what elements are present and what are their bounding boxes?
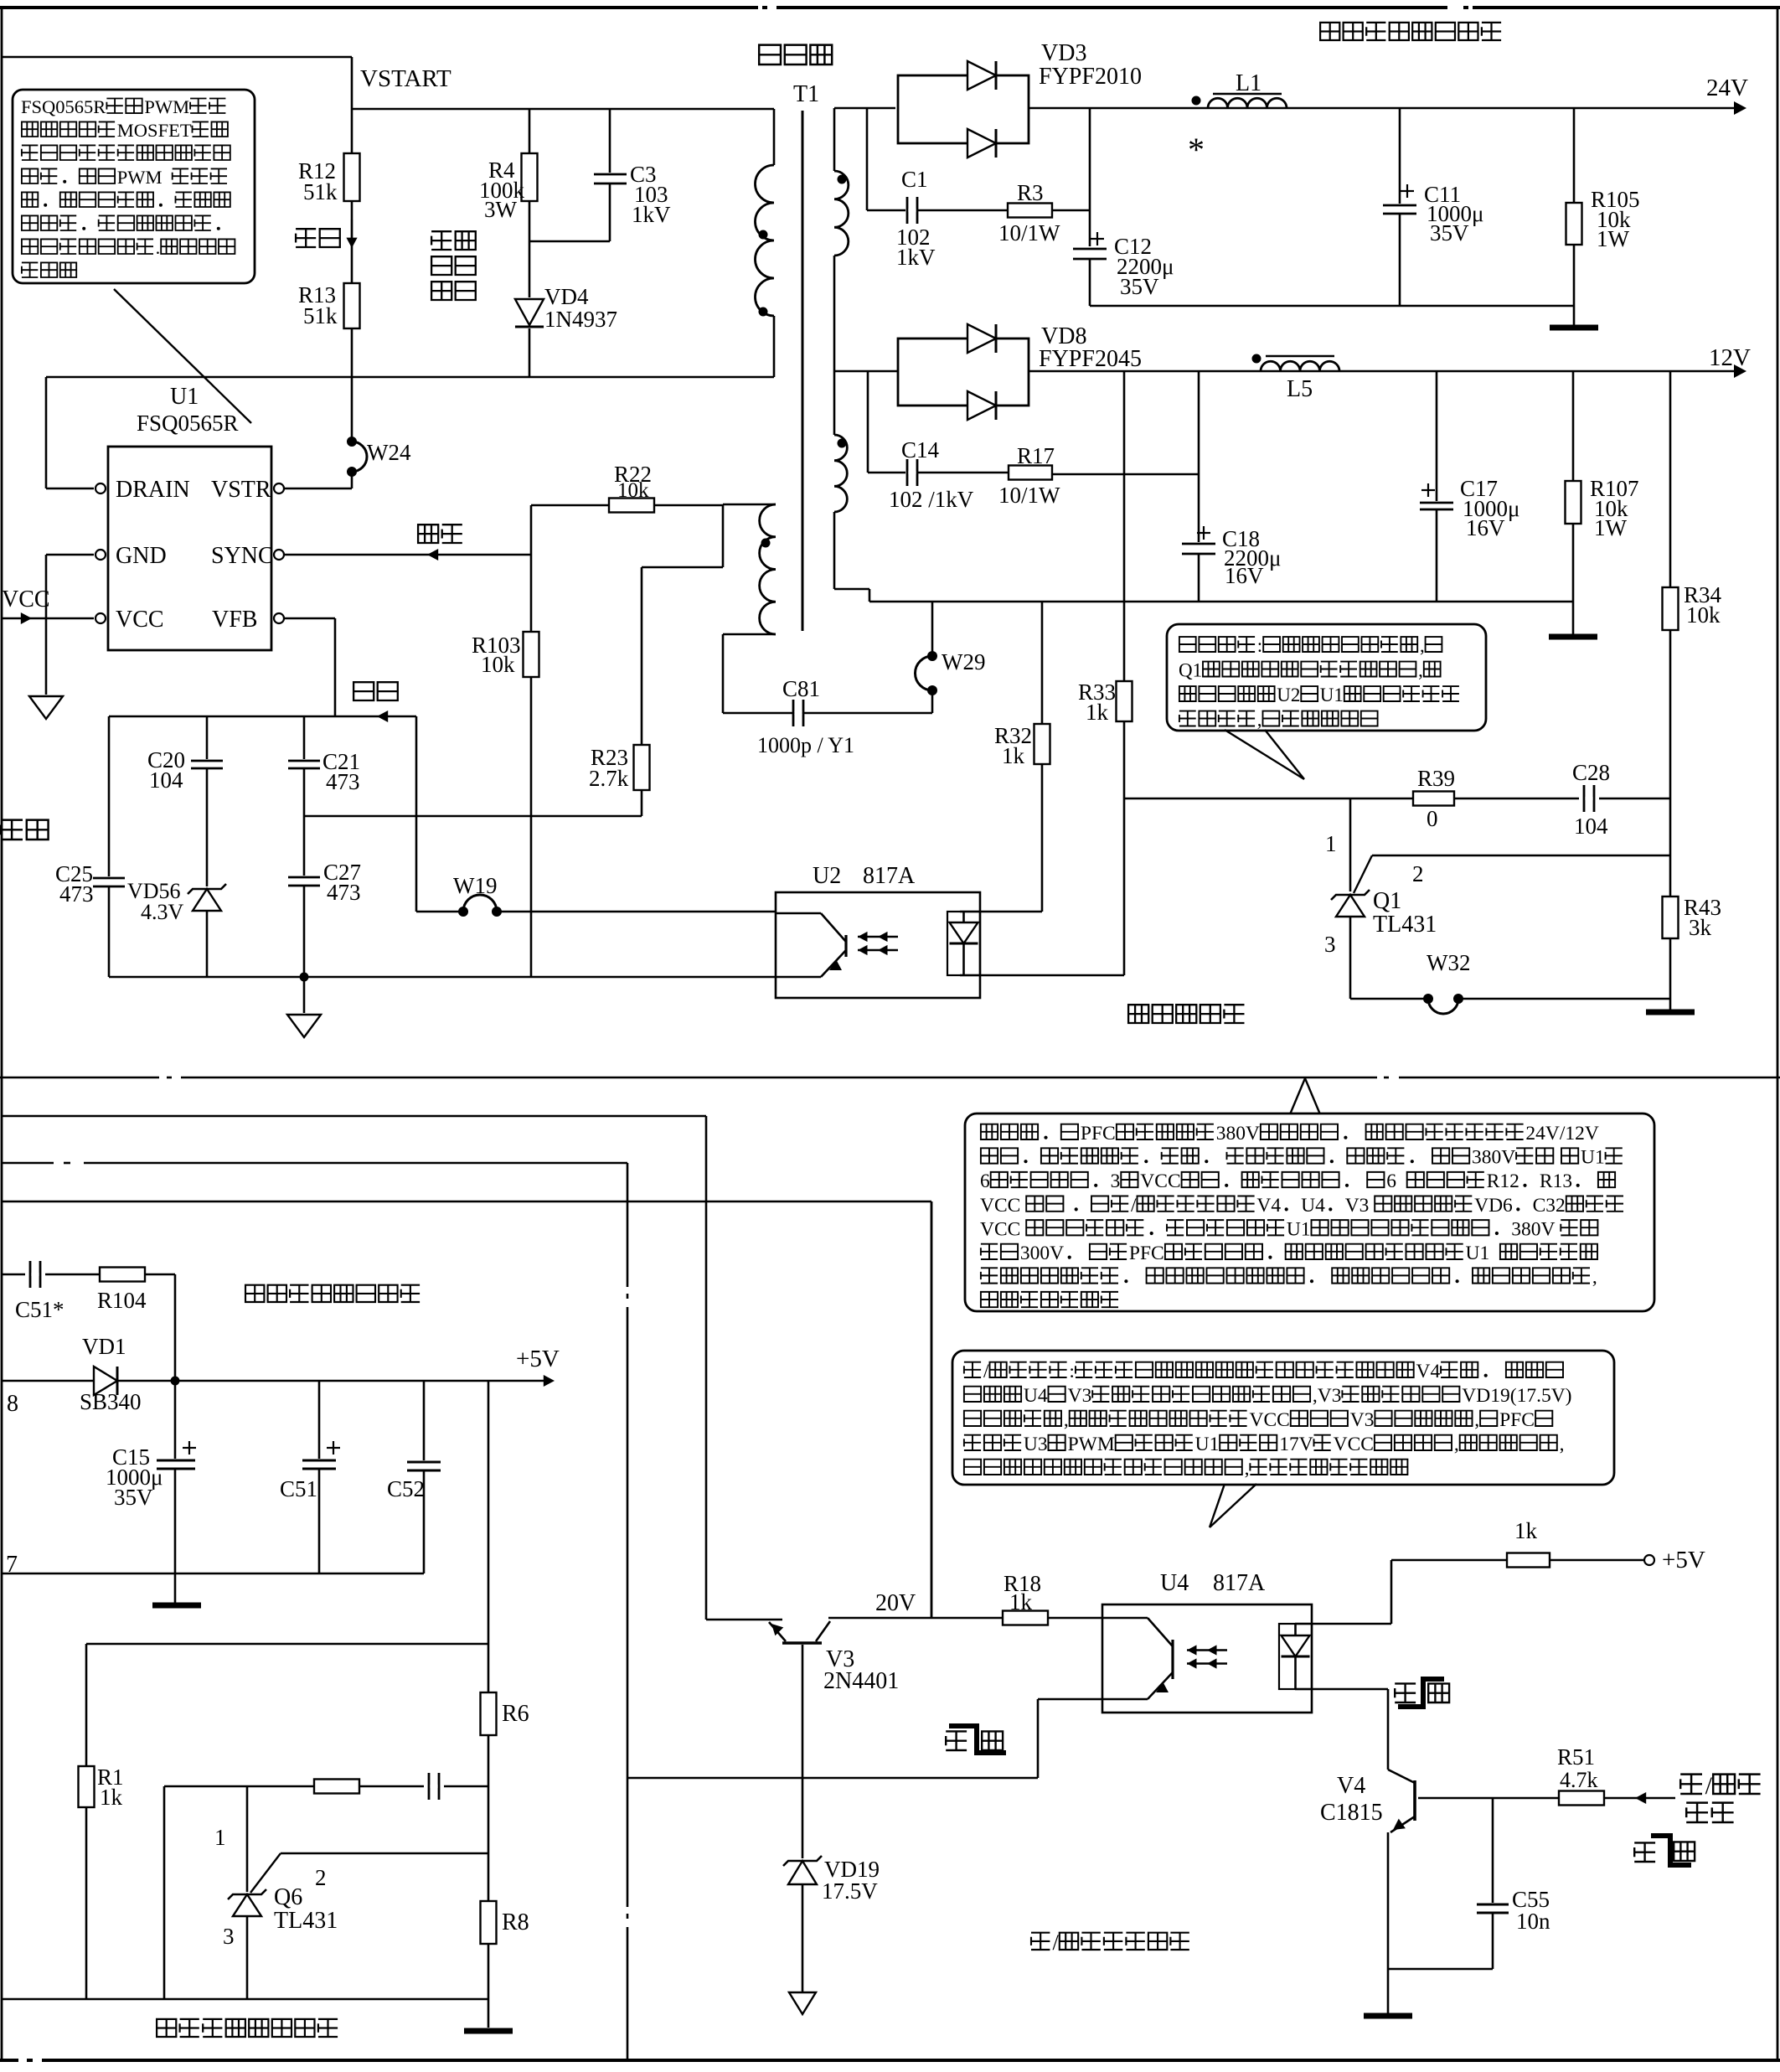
- svg-text:W24: W24: [367, 440, 411, 465]
- svg-text:VFB: VFB: [212, 607, 257, 633]
- svg-text:R39: R39: [1417, 766, 1455, 791]
- svg-text:35V: 35V: [1430, 220, 1469, 245]
- svg-text:.: .: [156, 237, 161, 258]
- svg-text:300V: 300V: [1020, 1243, 1064, 1264]
- svg-text:10/1W: 10/1W: [998, 483, 1060, 508]
- svg-text:10n: 10n: [1516, 1909, 1550, 1934]
- svg-text:8: 8: [7, 1391, 18, 1417]
- svg-text:PWM: PWM: [144, 96, 189, 117]
- svg-text:Q1: Q1: [1373, 888, 1401, 914]
- svg-text:1k: 1k: [1002, 743, 1025, 768]
- svg-text:104: 104: [149, 767, 183, 793]
- svg-text:3: 3: [1111, 1170, 1121, 1192]
- svg-text:,: ,: [1454, 1434, 1459, 1455]
- svg-text:TL431: TL431: [1373, 912, 1437, 938]
- svg-text:,: ,: [1064, 1409, 1069, 1431]
- svg-text:/: /: [983, 1361, 989, 1382]
- svg-text:6: 6: [980, 1170, 990, 1192]
- svg-text:U4: U4: [1024, 1385, 1048, 1407]
- svg-text:R6: R6: [502, 1701, 529, 1727]
- svg-text:VSTR: VSTR: [211, 477, 271, 503]
- svg-text:U1: U1: [170, 384, 199, 410]
- svg-text:473: 473: [59, 881, 94, 907]
- svg-text:2: 2: [315, 1865, 327, 1890]
- svg-text:473: 473: [327, 880, 361, 905]
- svg-text:17V: 17V: [1279, 1434, 1313, 1455]
- svg-text:VCC: VCC: [980, 1218, 1020, 1240]
- svg-text:VCC: VCC: [1250, 1409, 1290, 1431]
- svg-text:17.5V: 17.5V: [822, 1878, 878, 1904]
- svg-text:PWM: PWM: [117, 167, 163, 188]
- svg-text:,: ,: [1257, 710, 1262, 731]
- svg-text:L1: L1: [1236, 70, 1261, 96]
- svg-text:7: 7: [6, 1552, 18, 1578]
- svg-text:U2: U2: [813, 863, 841, 889]
- svg-text:104: 104: [1574, 814, 1608, 839]
- svg-text:,V3: ,V3: [1313, 1385, 1342, 1407]
- svg-text:U1: U1: [1195, 1434, 1220, 1455]
- svg-text:+5V: +5V: [1662, 1547, 1705, 1573]
- svg-text:PFC: PFC: [1129, 1243, 1164, 1264]
- svg-text:10k: 10k: [481, 652, 515, 677]
- svg-text:R12: R12: [1487, 1170, 1519, 1192]
- svg-text:C1: C1: [901, 167, 928, 192]
- svg-text:V3: V3: [1345, 1195, 1370, 1217]
- svg-text:4.7k: 4.7k: [1560, 1768, 1598, 1792]
- svg-text:1kV: 1kV: [896, 245, 936, 270]
- svg-text:1N4937: 1N4937: [544, 307, 617, 332]
- svg-text:W19: W19: [453, 873, 497, 898]
- svg-text:U4: U4: [1160, 1570, 1189, 1596]
- svg-text:VCC: VCC: [1140, 1170, 1180, 1192]
- svg-text:2.7k: 2.7k: [589, 766, 629, 791]
- svg-text:51k: 51k: [303, 303, 338, 328]
- svg-text:,: ,: [1245, 1458, 1250, 1480]
- svg-text:V4: V4: [1337, 1773, 1365, 1799]
- svg-text:VCC: VCC: [116, 607, 164, 633]
- svg-text:GND: GND: [116, 543, 167, 569]
- svg-text:1k: 1k: [100, 1785, 123, 1810]
- svg-text:3k: 3k: [1689, 915, 1712, 940]
- svg-text:SB340: SB340: [80, 1389, 142, 1414]
- svg-text:3W: 3W: [484, 197, 518, 222]
- svg-text:1k: 1k: [1086, 700, 1109, 725]
- svg-text:1: 1: [1325, 831, 1337, 856]
- svg-text:FSQ0565R: FSQ0565R: [137, 411, 239, 436]
- svg-text:VD1: VD1: [82, 1334, 126, 1359]
- svg-text:L5: L5: [1287, 376, 1313, 402]
- svg-text:4.3V: 4.3V: [141, 900, 184, 924]
- svg-text:380V: 380V: [1472, 1147, 1515, 1169]
- svg-text:*: *: [1188, 131, 1205, 168]
- svg-text:C14: C14: [901, 437, 940, 462]
- svg-text:1kV: 1kV: [632, 202, 671, 227]
- svg-text:1000p / Y1: 1000p / Y1: [757, 733, 854, 757]
- svg-text:U3: U3: [1024, 1434, 1048, 1455]
- svg-text:2N4401: 2N4401: [823, 1668, 899, 1694]
- svg-text:R3: R3: [1017, 180, 1044, 205]
- svg-text:473: 473: [326, 769, 360, 794]
- svg-text:PWM: PWM: [1068, 1434, 1115, 1455]
- svg-text:3: 3: [1324, 932, 1336, 957]
- svg-text:2: 2: [1412, 861, 1424, 886]
- svg-text:PFC: PFC: [1499, 1409, 1535, 1431]
- svg-text:12V: 12V: [1709, 344, 1751, 371]
- svg-text:R51: R51: [1557, 1744, 1595, 1770]
- svg-text:380V: 380V: [1511, 1218, 1555, 1240]
- svg-text:V4: V4: [1256, 1195, 1281, 1217]
- svg-text:VCC: VCC: [1334, 1434, 1374, 1455]
- svg-text:V3: V3: [1350, 1409, 1375, 1431]
- svg-text:VCC: VCC: [2, 586, 50, 612]
- svg-text:VD3: VD3: [1041, 40, 1086, 66]
- svg-text:R13: R13: [1540, 1170, 1572, 1192]
- svg-text:,: ,: [1418, 660, 1423, 681]
- svg-text:+5V: +5V: [516, 1346, 560, 1372]
- svg-text:VD6: VD6: [1474, 1195, 1513, 1217]
- svg-text:,: ,: [1474, 1409, 1479, 1431]
- svg-text:VCC: VCC: [980, 1195, 1020, 1217]
- svg-text:U1: U1: [1581, 1147, 1605, 1169]
- svg-text:R104: R104: [97, 1288, 147, 1313]
- svg-text:U4: U4: [1301, 1195, 1325, 1217]
- svg-text:380V: 380V: [1216, 1123, 1260, 1145]
- svg-text:1k: 1k: [1009, 1589, 1033, 1615]
- svg-text:1: 1: [214, 1825, 226, 1850]
- svg-text:TL431: TL431: [274, 1908, 338, 1934]
- svg-text:,: ,: [1592, 1267, 1597, 1289]
- svg-text:PFC: PFC: [1081, 1123, 1116, 1145]
- svg-text:C51: C51: [280, 1476, 317, 1501]
- svg-text:U2: U2: [1277, 685, 1300, 705]
- svg-text:/: /: [1705, 1772, 1713, 1800]
- svg-text:,: ,: [1560, 1434, 1565, 1455]
- svg-text::: :: [1069, 1361, 1075, 1382]
- svg-text:10k: 10k: [617, 479, 649, 502]
- svg-text:10k: 10k: [1686, 602, 1721, 628]
- svg-text:24V/12V: 24V/12V: [1525, 1123, 1599, 1145]
- svg-text:16V: 16V: [1466, 515, 1505, 540]
- svg-text:V3: V3: [1068, 1385, 1092, 1407]
- svg-text:VSTART: VSTART: [360, 65, 451, 92]
- svg-text:C52: C52: [387, 1476, 425, 1501]
- svg-text:3: 3: [223, 1924, 235, 1949]
- svg-text:U1: U1: [1287, 1218, 1311, 1240]
- svg-text:C81: C81: [782, 676, 820, 701]
- svg-text:W29: W29: [942, 649, 985, 674]
- svg-text:MOSFET: MOSFET: [117, 120, 192, 141]
- svg-text:V4: V4: [1416, 1361, 1441, 1382]
- svg-text:FYPF2010: FYPF2010: [1039, 64, 1142, 90]
- svg-text:817A: 817A: [863, 863, 916, 889]
- svg-text:20V: 20V: [875, 1590, 916, 1616]
- svg-text:16V: 16V: [1225, 563, 1264, 588]
- svg-text:W32: W32: [1427, 950, 1470, 975]
- svg-text:SYNC: SYNC: [211, 543, 274, 569]
- svg-text:VD19(17.5V): VD19(17.5V): [1462, 1385, 1571, 1407]
- svg-text:U1: U1: [1466, 1243, 1490, 1264]
- svg-text:Q1: Q1: [1179, 660, 1202, 681]
- svg-text:Q6: Q6: [274, 1884, 302, 1910]
- svg-text:C51*: C51*: [15, 1297, 64, 1322]
- svg-text:R17: R17: [1017, 443, 1055, 468]
- svg-text:DRAIN: DRAIN: [116, 477, 190, 503]
- svg-text:C28: C28: [1572, 760, 1610, 785]
- svg-text::: :: [1257, 635, 1262, 656]
- svg-text:51k: 51k: [303, 179, 338, 204]
- svg-text:,: ,: [1420, 635, 1425, 656]
- svg-text:24V: 24V: [1706, 75, 1748, 101]
- svg-text:VD4: VD4: [544, 284, 589, 309]
- svg-text:C32: C32: [1533, 1195, 1566, 1217]
- svg-text:102 /1kV: 102 /1kV: [889, 487, 974, 512]
- svg-text:1k: 1k: [1514, 1518, 1538, 1543]
- svg-text:R8: R8: [502, 1909, 529, 1935]
- svg-text:35V: 35V: [1120, 274, 1159, 299]
- svg-text:6: 6: [1386, 1170, 1396, 1192]
- svg-text:FSQ0565R: FSQ0565R: [21, 96, 106, 117]
- svg-text:FYPF2045: FYPF2045: [1039, 346, 1142, 372]
- svg-text:817A: 817A: [1213, 1570, 1266, 1596]
- svg-text:/: /: [1131, 1195, 1137, 1217]
- svg-text:C1815: C1815: [1320, 1800, 1383, 1826]
- svg-text:T1: T1: [793, 81, 819, 107]
- svg-text:0: 0: [1427, 806, 1438, 831]
- svg-text:35V: 35V: [114, 1485, 153, 1510]
- svg-text:1W: 1W: [1597, 226, 1630, 251]
- svg-text:U1: U1: [1320, 685, 1344, 705]
- svg-text:/: /: [1053, 1930, 1060, 1955]
- svg-text:1W: 1W: [1594, 515, 1628, 540]
- svg-text:10/1W: 10/1W: [998, 220, 1060, 245]
